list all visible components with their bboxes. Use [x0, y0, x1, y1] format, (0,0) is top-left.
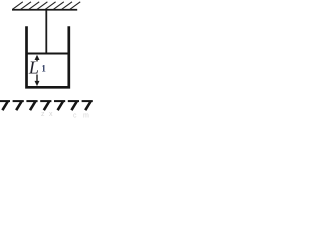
svg-text:x: x [49, 111, 53, 118]
arrow L1 upper shaft [36, 58, 38, 62]
ground mark 3 [26, 100, 37, 102]
arrow L1 lower shaft [36, 75, 38, 84]
svg-text:1: 1 [41, 64, 46, 74]
ground mark 2 [13, 100, 24, 102]
ground mark 4 [40, 100, 51, 102]
watermark text fragments [41, 111, 89, 120]
svg-text:m: m [83, 113, 89, 119]
label L1 [28, 58, 47, 78]
floor hatching (ground marks) [0, 101, 93, 110]
arrow L1 up arrowhead [35, 55, 40, 60]
rod (hanger from ceiling to piston) [45, 9, 47, 53]
ground mark 1 [0, 100, 10, 102]
ceiling line [12, 9, 77, 11]
background [0, 0, 94, 118]
piston [26, 52, 70, 54]
ground mark 7 [82, 100, 93, 102]
container (open-top vessel) [27, 26, 69, 87]
svg-text:c: c [73, 113, 77, 119]
ground mark 5 [54, 100, 65, 102]
svg-text:z: z [41, 111, 45, 118]
ceiling hatching [13, 2, 81, 10]
arrow L1 down arrowhead [35, 81, 40, 86]
svg-text:L: L [28, 58, 39, 78]
ground mark 6 [68, 100, 79, 102]
